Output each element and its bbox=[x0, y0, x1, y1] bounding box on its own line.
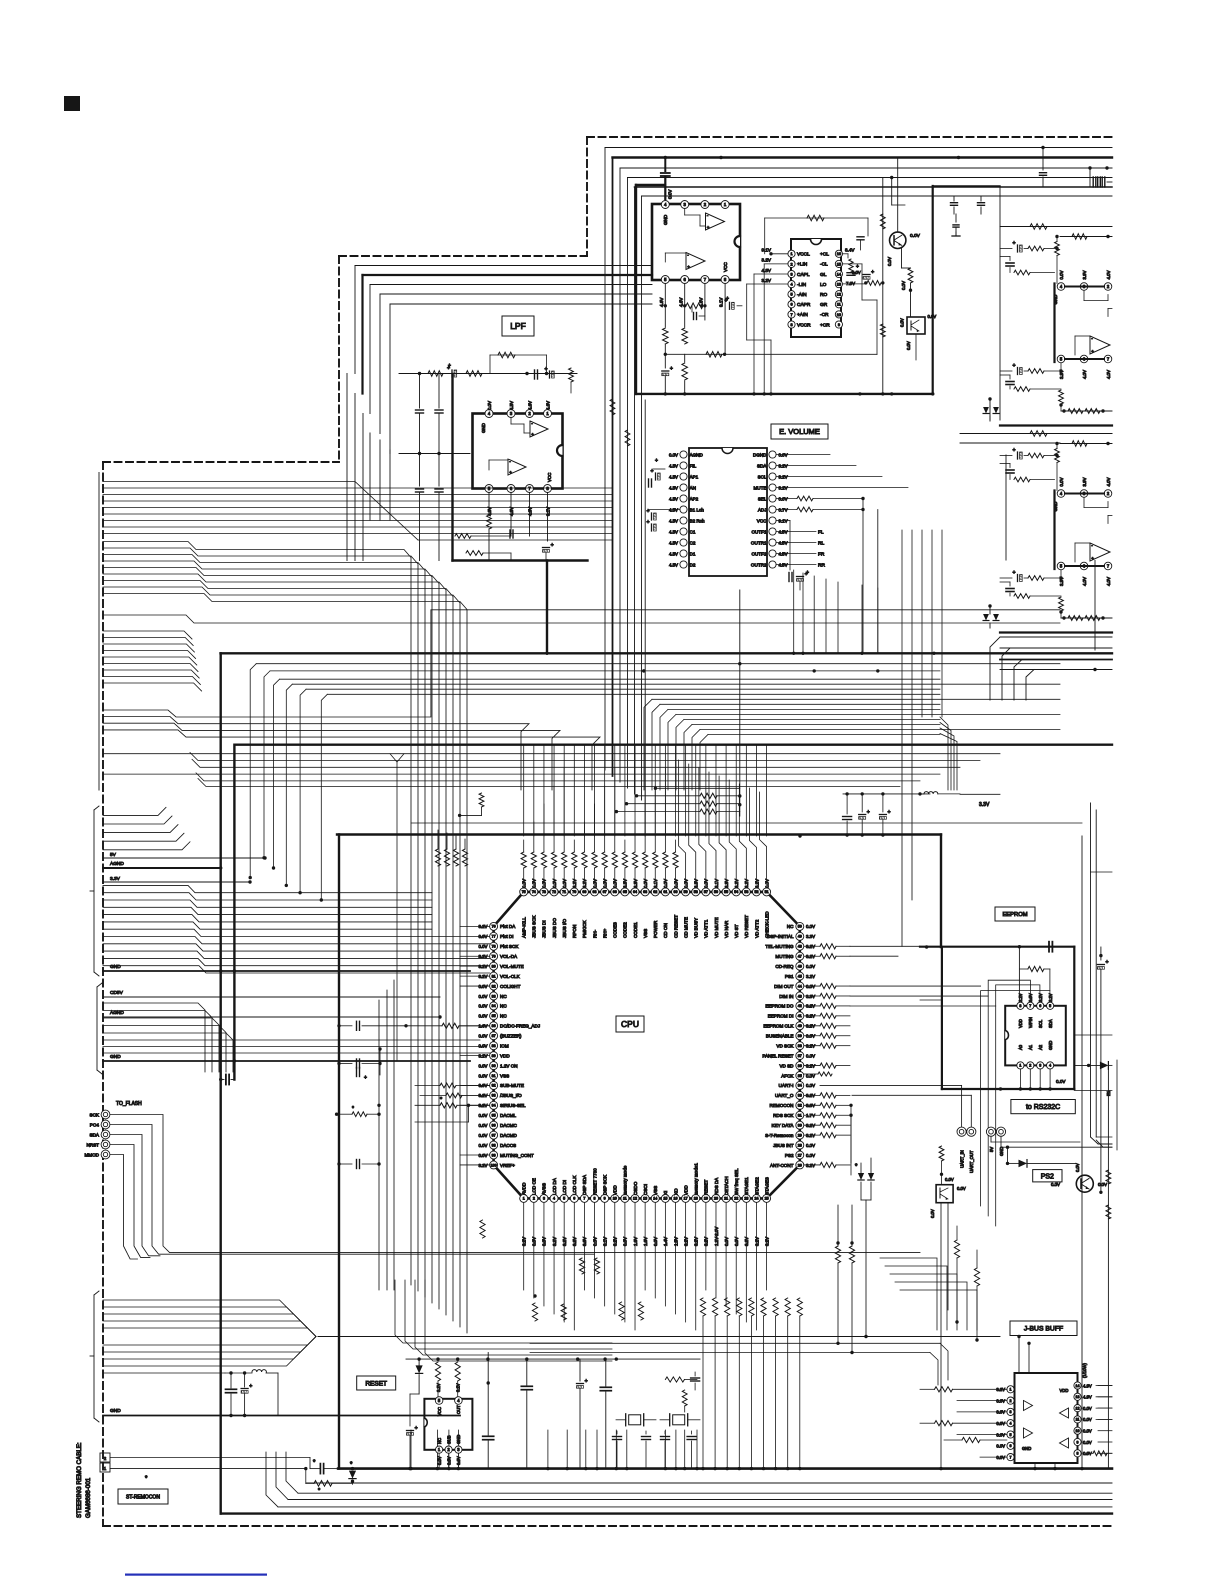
resistor R32 bbox=[804, 1104, 820, 1106]
E.VOLUME out wires bbox=[776, 531, 816, 533]
svg-text:0.0V: 0.0V bbox=[906, 341, 911, 350]
fan bracket1 upper wires bbox=[103, 807, 166, 815]
svg-text:4: 4 bbox=[1010, 1421, 1012, 1425]
fan group 7 cluster line bbox=[103, 1372, 225, 1374]
E.VOLUME left caps bbox=[653, 468, 665, 470]
ST-REMOCON label box bbox=[118, 1489, 168, 1504]
svg-text:+: + bbox=[647, 520, 650, 526]
CPU pin 42 EEPROM DO bbox=[796, 1002, 804, 1010]
svg-text:+: + bbox=[806, 570, 809, 576]
svg-text:0.0V: 0.0V bbox=[806, 1143, 815, 1148]
svg-text:LCD CE: LCD CE bbox=[532, 1178, 537, 1195]
svg-text:NRST: NRST bbox=[86, 1142, 99, 1147]
resistor U-D-R7 bbox=[1009, 593, 1011, 596]
svg-text:6: 6 bbox=[573, 1197, 575, 1201]
CPU pin 91 VSS bbox=[490, 1072, 498, 1080]
svg-text:WPIN: WPIN bbox=[1028, 1017, 1033, 1028]
svg-text:4.6V: 4.6V bbox=[487, 507, 492, 516]
svg-text:DIM OUT: DIM OUT bbox=[774, 984, 794, 989]
svg-text:CSCI: CSCI bbox=[643, 1184, 648, 1195]
svg-text:B2 Rch: B2 Rch bbox=[690, 518, 706, 523]
svg-text:SCK: SCK bbox=[90, 1112, 100, 1117]
dashed boundary staircase h1 bbox=[339, 255, 587, 257]
resistor R-RC1 bbox=[1106, 1170, 1111, 1184]
wire staircase left bbox=[355, 265, 652, 267]
svg-text:VCCR: VCCR bbox=[797, 322, 811, 328]
thick bus under U-D bbox=[1000, 631, 1112, 633]
svg-text:0.0V: 0.0V bbox=[930, 1209, 935, 1218]
svg-text:+: + bbox=[867, 809, 870, 815]
CPU pin 2 LCD CE bbox=[530, 1194, 538, 1202]
svg-text:+: + bbox=[707, 225, 710, 230]
svg-text:18: 18 bbox=[694, 1197, 698, 1201]
wire bus top bbox=[605, 147, 1112, 149]
svg-text:60: 60 bbox=[674, 890, 678, 894]
EEPROM pin 6 SCL bbox=[1037, 1002, 1044, 1009]
J-BUS IC body bbox=[1015, 1373, 1078, 1463]
CPU pin 94 SIRIUS-SEL bbox=[490, 1101, 498, 1109]
diode D-EE bbox=[1087, 1064, 1090, 1067]
svg-text:3.2V: 3.2V bbox=[762, 258, 772, 263]
wire CPU pin 63 up bbox=[644, 868, 646, 880]
E.VOLUME left pin 9 bbox=[680, 539, 687, 546]
EEPROM pin 8 VDD bbox=[1017, 1002, 1024, 1009]
resistor R-A1 bbox=[683, 304, 686, 307]
resistor U-C-R3 vertical bbox=[1056, 237, 1058, 242]
CPU pin 75 AMP-KILL bbox=[520, 888, 528, 896]
svg-text:0.0V: 0.0V bbox=[478, 944, 487, 949]
EEPROM pin 1 A0 bbox=[1017, 1062, 1024, 1069]
J-BUS buffer triangles bbox=[1024, 1401, 1033, 1411]
EEPROM pin 3 A2 bbox=[1037, 1062, 1044, 1069]
svg-text:KEY DATA: KEY DATA bbox=[772, 1123, 795, 1128]
CPU pin 66 CODE3 bbox=[611, 888, 619, 896]
E.VOLUME right pin 20 bbox=[769, 539, 776, 546]
CPU pin 52 VD ATT2 bbox=[752, 888, 760, 896]
svg-text:*: * bbox=[313, 1460, 316, 1466]
CPU pin 10 VDD bbox=[611, 1194, 619, 1202]
resistor R-JB2 bbox=[935, 1421, 953, 1426]
CPU pin 37 PANEL RESET bbox=[796, 1052, 804, 1060]
svg-text:PS1: PS1 bbox=[785, 974, 794, 979]
svg-text:0.0V: 0.0V bbox=[806, 1083, 815, 1088]
svg-text:74: 74 bbox=[532, 890, 536, 894]
thick bus under U-C bbox=[1000, 424, 1112, 426]
svg-text:9: 9 bbox=[838, 323, 840, 327]
svg-text:JBUS SCK: JBUS SCK bbox=[532, 915, 537, 938]
svg-text:50: 50 bbox=[798, 925, 802, 929]
resistor U-C-R8 vertical bbox=[1060, 363, 1062, 371]
resistor R36 bbox=[804, 1065, 820, 1067]
transistor Q1 emitter wire bbox=[901, 247, 903, 268]
svg-text:4.5V: 4.5V bbox=[669, 463, 678, 468]
svg-text:0.0V: 0.0V bbox=[487, 401, 492, 410]
fan group 5 wires bbox=[103, 1003, 205, 1072]
resistor U-C-R6 bbox=[1024, 370, 1028, 372]
E.VOLUME left pin 11 bbox=[680, 561, 687, 568]
svg-text:memory mode1: memory mode1 bbox=[694, 1163, 699, 1195]
J-BUS pin 6 bbox=[1007, 1442, 1014, 1449]
svg-text:3: 3 bbox=[543, 1197, 545, 1201]
svg-text:DSP-INITIAL: DSP-INITIAL bbox=[767, 934, 794, 939]
CPU pin 57 VD ATT1 bbox=[702, 888, 710, 896]
svg-text:+CR: +CR bbox=[820, 322, 830, 328]
IC U-B pin 13 bbox=[835, 281, 842, 288]
LPF triangle 2 bbox=[508, 459, 526, 475]
dashed boundary staircase v1 bbox=[586, 137, 588, 256]
svg-text:CD ON: CD ON bbox=[663, 923, 668, 938]
svg-text:DGND: DGND bbox=[753, 452, 767, 457]
svg-text:VD SCK: VD SCK bbox=[776, 1043, 794, 1048]
svg-text:20: 20 bbox=[714, 1197, 718, 1201]
svg-text:3: 3 bbox=[1039, 1064, 1041, 1068]
CPU pin 87 (BUZZER) bbox=[490, 1032, 498, 1040]
resistor R-L3 vertical bbox=[569, 368, 574, 382]
svg-text:1: 1 bbox=[523, 1197, 525, 1201]
svg-text:UART-I: UART-I bbox=[779, 1083, 794, 1088]
EEPROM dot bbox=[999, 1087, 1002, 1090]
resistor R-A2 vertical bbox=[664, 306, 666, 327]
wires left of LPF verticals bbox=[346, 374, 348, 561]
svg-text:66: 66 bbox=[613, 890, 617, 894]
op-amp U-C body wires bbox=[1053, 284, 1055, 363]
wire CPU pin 75 up bbox=[523, 868, 525, 880]
svg-text:VOL-DA: VOL-DA bbox=[500, 954, 518, 959]
svg-text:+: + bbox=[509, 470, 512, 475]
svg-text:-LIN: -LIN bbox=[797, 282, 807, 288]
svg-text:POWER: POWER bbox=[653, 920, 658, 938]
svg-text:28: 28 bbox=[798, 1143, 802, 1147]
thick frame line T2 bbox=[221, 652, 1113, 654]
capacitor cluster top right bbox=[1089, 168, 1091, 178]
op-amp U-D pin 4 bbox=[1057, 490, 1065, 498]
CPU pin 64 CODE1 bbox=[631, 888, 639, 896]
resistor U-C-R1 bbox=[1000, 226, 1112, 228]
svg-text:19: 19 bbox=[704, 1197, 708, 1201]
EEPROM label box bbox=[995, 907, 1035, 921]
wire CPU pin 71 up bbox=[563, 868, 565, 880]
svg-text:GND: GND bbox=[1053, 295, 1058, 305]
CPU pin 24 STAGE2 bbox=[752, 1194, 760, 1202]
fan bracket 3 bbox=[93, 1295, 95, 1418]
svg-text:12: 12 bbox=[837, 293, 841, 297]
svg-text:3.9V: 3.9V bbox=[1082, 477, 1087, 486]
5V connector bbox=[986, 1127, 995, 1136]
electrolytic C-L3 bbox=[549, 371, 551, 378]
svg-text:0.0V: 0.0V bbox=[806, 1153, 815, 1158]
svg-text:14: 14 bbox=[653, 1197, 657, 1201]
op-amp U-A pin 4 bbox=[661, 201, 669, 209]
svg-text:4.5V: 4.5V bbox=[669, 474, 678, 479]
resistor R-JB5 vertical bbox=[974, 1268, 979, 1286]
svg-text:+: + bbox=[249, 1383, 252, 1389]
svg-text:4.6V: 4.6V bbox=[679, 297, 684, 307]
fan group 7 wires upper bbox=[103, 1300, 316, 1337]
capacitor C-EV1 bbox=[789, 521, 791, 571]
svg-text:EEPROM DI: EEPROM DI bbox=[768, 1014, 794, 1019]
junction dots top bus bbox=[664, 156, 667, 159]
svg-text:SCL: SCL bbox=[1038, 1019, 1043, 1028]
svg-text:0.0V: 0.0V bbox=[945, 1177, 954, 1182]
svg-text:0.0V: 0.0V bbox=[478, 1133, 487, 1138]
svg-text:84: 84 bbox=[492, 1004, 496, 1008]
svg-text:+: + bbox=[1091, 556, 1094, 561]
wire CPU pin 62 up bbox=[654, 868, 656, 880]
J-BUS pin 14 wire bbox=[1098, 1385, 1112, 1387]
svg-text:VDD: VDD bbox=[613, 1185, 618, 1195]
svg-text:29: 29 bbox=[798, 1133, 802, 1137]
svg-text:6: 6 bbox=[1039, 1004, 1041, 1008]
svg-text:5V: 5V bbox=[989, 1147, 994, 1152]
svg-text:14: 14 bbox=[1076, 1384, 1080, 1388]
svg-text:+: + bbox=[448, 363, 451, 369]
svg-text:1: 1 bbox=[1019, 1064, 1021, 1068]
svg-text:DACML: DACML bbox=[500, 1113, 517, 1118]
svg-text:40: 40 bbox=[798, 1024, 802, 1028]
thick frame line T3 bbox=[235, 744, 1112, 746]
svg-text:93: 93 bbox=[492, 1094, 496, 1098]
J-BUS pin 11 bbox=[1074, 1416, 1081, 1423]
svg-text:11: 11 bbox=[837, 303, 841, 307]
resistor U-D-R6 bbox=[1024, 577, 1028, 579]
CPU pin 90 1.2V ON bbox=[490, 1062, 498, 1070]
svg-text:VCC: VCC bbox=[437, 1407, 442, 1416]
op-amp U-A feedback wires bbox=[684, 209, 686, 215]
resistor R39 bbox=[804, 1035, 820, 1037]
UART_IN connector bbox=[957, 1127, 966, 1136]
svg-text:11: 11 bbox=[1076, 1418, 1080, 1422]
CPU pin 97 DACMD bbox=[490, 1131, 498, 1139]
IC U-B pin 1 bbox=[788, 250, 795, 257]
svg-text:PMKICK: PMKICK bbox=[582, 919, 587, 938]
thick stub left of U-A bbox=[636, 184, 665, 186]
svg-text:AP1: AP1 bbox=[690, 474, 699, 479]
svg-text:TO_FLASH: TO_FLASH bbox=[116, 1101, 142, 1107]
CPU pin 50 NC bbox=[796, 922, 804, 930]
transistor Q-PS2 bbox=[1076, 1175, 1093, 1192]
dashed boundary staircase h2 bbox=[103, 461, 339, 463]
crystal X2 bbox=[669, 1414, 671, 1426]
svg-text:COLIGHT: COLIGHT bbox=[500, 984, 521, 989]
svg-text:0.0V: 0.0V bbox=[478, 1034, 487, 1039]
CPU pin 26 ANT-CONT bbox=[796, 1161, 804, 1169]
E.VOLUME label box bbox=[771, 424, 828, 439]
J-BUS pin 10 wire bbox=[1098, 1430, 1112, 1432]
svg-text:E. VOLUME: E. VOLUME bbox=[779, 427, 820, 436]
svg-text:9: 9 bbox=[604, 1197, 606, 1201]
wire row y823 bbox=[411, 822, 1082, 824]
op-amp U-C pin 2 bbox=[1104, 283, 1112, 291]
electrolytic C-L5 bbox=[543, 547, 550, 549]
right mid horizontal wires bbox=[960, 433, 1112, 435]
capacitor C-L4 bbox=[509, 530, 511, 538]
svg-text:*: * bbox=[352, 1106, 354, 1112]
LPF below parts bbox=[488, 493, 490, 515]
svg-text:VREF+: VREF+ bbox=[500, 1163, 515, 1168]
svg-text:AVSS: AVSS bbox=[542, 1183, 547, 1195]
capacitor C-EE1 bbox=[1048, 942, 1050, 952]
wires CPU to EEPROM bbox=[850, 945, 920, 947]
CPU pin 32 dot bbox=[849, 1104, 852, 1107]
svg-text:STAGE2: STAGE2 bbox=[754, 1177, 759, 1195]
svg-text:85: 85 bbox=[492, 1014, 496, 1018]
fan group 4 wires bbox=[103, 885, 432, 892]
wire CPU pin 66 up bbox=[614, 868, 616, 880]
svg-text:86: 86 bbox=[492, 1024, 496, 1028]
svg-text:B1 Lch: B1 Lch bbox=[690, 507, 705, 512]
CPU pin 28 JBUS INT bbox=[796, 1141, 804, 1149]
CPU pin 23 STAGE1 bbox=[742, 1194, 750, 1202]
resistor R-EE1 bbox=[1028, 966, 1044, 971]
LPF input wire row y373.5 bbox=[399, 373, 577, 375]
svg-text:/JBUS_I/O: /JBUS_I/O bbox=[500, 1093, 522, 1098]
svg-text:8.4V: 8.4V bbox=[845, 248, 855, 253]
IC U-B pin 16 bbox=[835, 250, 842, 257]
wire CPU pin 64 up bbox=[634, 868, 636, 880]
EEPROM pin 4 GND bbox=[1047, 1062, 1054, 1069]
svg-text:+: + bbox=[1013, 448, 1016, 454]
RESET label box bbox=[357, 1376, 396, 1390]
svg-text:2: 2 bbox=[104, 1456, 107, 1461]
resistor R-b7 bbox=[638, 1302, 643, 1320]
electrolytic C-A3 bbox=[664, 354, 666, 368]
svg-text:VD BUSY: VD BUSY bbox=[694, 918, 699, 938]
op-amp U-A pin 1 bbox=[721, 201, 729, 209]
resistor U-D-R2 bbox=[1060, 443, 1112, 445]
CPU pin 32 REMOCON bbox=[796, 1101, 804, 1109]
EEPROM pin7 pin6 wires bbox=[988, 980, 1030, 1216]
svg-text:EEPROM CLK: EEPROM CLK bbox=[763, 1024, 794, 1029]
E.VOLUME IC body bbox=[689, 448, 767, 576]
svg-text:+: + bbox=[1013, 570, 1016, 576]
svg-text:CD MUTE: CD MUTE bbox=[683, 917, 688, 938]
svg-text:4.0V: 4.0V bbox=[1106, 577, 1111, 586]
svg-text:0.0V: 0.0V bbox=[1083, 1417, 1092, 1422]
verticals mid right bbox=[901, 530, 903, 717]
capacitor C-top3 with ground bbox=[955, 214, 957, 222]
svg-text:7: 7 bbox=[583, 1197, 585, 1201]
J-BUS verticals bbox=[1018, 1337, 1020, 1374]
svg-text:4.5V: 4.5V bbox=[669, 540, 678, 545]
svg-text:3.2V: 3.2V bbox=[436, 1383, 441, 1392]
resistor U-C-R9 row bbox=[1060, 405, 1062, 411]
J-BUS pins to bus bbox=[1034, 1463, 1036, 1469]
resistor R-L5 bbox=[455, 534, 471, 539]
svg-text:90: 90 bbox=[492, 1064, 496, 1068]
svg-text:0.0V: 0.0V bbox=[957, 1186, 966, 1191]
resistor U-C-R5 bbox=[1009, 268, 1011, 273]
svg-text:+: + bbox=[1106, 959, 1109, 965]
svg-text:RL: RL bbox=[818, 540, 824, 546]
svg-text:VD ATT2: VD ATT2 bbox=[754, 919, 759, 938]
svg-text:SW freq SEL: SW freq SEL bbox=[734, 1168, 739, 1195]
E.VOLUME left pin 3 bbox=[680, 473, 687, 480]
wire long row y717 bbox=[103, 610, 1060, 717]
LPF pin 3 bbox=[507, 410, 515, 418]
IC U-B pin 11 bbox=[835, 301, 842, 308]
electrolytic C-RST bbox=[407, 1430, 414, 1432]
svg-text:4.9V: 4.9V bbox=[1083, 1395, 1092, 1400]
crystal X1 caps bbox=[613, 1436, 622, 1438]
svg-text:4.8V: 4.8V bbox=[762, 268, 772, 273]
dashed boundary bottom bbox=[103, 1525, 1112, 1527]
svg-text:96: 96 bbox=[492, 1123, 496, 1127]
svg-text:Pict DI: Pict DI bbox=[500, 934, 514, 939]
svg-text:92: 92 bbox=[492, 1084, 496, 1088]
bus Y split bbox=[390, 754, 404, 762]
J-BUS pin 12 wire bbox=[1098, 1407, 1112, 1409]
svg-text:VD ATT1: VD ATT1 bbox=[704, 919, 709, 938]
svg-text:17: 17 bbox=[684, 1197, 688, 1201]
resistor R-RST2 bbox=[455, 1362, 460, 1381]
CPU pin 9 DSP SCK bbox=[601, 1194, 609, 1202]
svg-text:RESET 7730: RESET 7730 bbox=[592, 1168, 597, 1195]
wire row y354 bbox=[664, 344, 666, 354]
capacitor C-mid1 bbox=[521, 1385, 532, 1387]
svg-text:8: 8 bbox=[790, 323, 792, 327]
svg-text:NC: NC bbox=[437, 1438, 442, 1444]
EEPROM pin 2 A1 bbox=[1027, 1062, 1034, 1069]
svg-text:JBUS I/O: JBUS I/O bbox=[562, 918, 567, 938]
svg-text:XO: XO bbox=[673, 1188, 678, 1195]
resistor R40 bbox=[804, 1025, 820, 1027]
svg-text:+: + bbox=[364, 1075, 367, 1081]
J-BUS wires left bbox=[957, 1400, 1007, 1402]
resistor R-JB6 bbox=[1093, 1451, 1107, 1456]
CPU pin 89 VDD bbox=[490, 1052, 498, 1060]
svg-text:0.0V: 0.0V bbox=[1098, 1182, 1107, 1187]
svg-text:UART_OUT: UART_OUT bbox=[969, 1150, 974, 1173]
svg-text:2: 2 bbox=[790, 262, 792, 266]
CPU pin 5 LCD DI bbox=[560, 1194, 568, 1202]
resistor R41 bbox=[804, 1015, 820, 1017]
resistor R26 bbox=[804, 1164, 820, 1166]
svg-text:81: 81 bbox=[492, 974, 496, 978]
resistor R-b2 bbox=[532, 1303, 537, 1321]
svg-text:0.0V: 0.0V bbox=[806, 964, 815, 969]
CPU pin 98 DACCS bbox=[490, 1141, 498, 1149]
svg-text:9: 9 bbox=[1077, 1440, 1079, 1444]
E.VOLUME SEL ADJ verticals bbox=[862, 499, 864, 654]
wire 3.3V row bbox=[843, 793, 930, 795]
svg-text:VD MUTE: VD MUTE bbox=[714, 917, 719, 938]
svg-text:JBUS DI: JBUS DI bbox=[542, 920, 547, 938]
svg-text:DSP SCK: DSP SCK bbox=[602, 1174, 607, 1195]
photocoupler PC2 bbox=[936, 1185, 953, 1203]
svg-text:4.6V: 4.6V bbox=[528, 507, 533, 516]
svg-text:GND: GND bbox=[1048, 1041, 1053, 1050]
svg-text:IOM: IOM bbox=[500, 1043, 509, 1048]
LPF feedback resistor R-L4 bbox=[490, 354, 547, 356]
bottom wire rows bbox=[306, 1482, 1112, 1484]
svg-text:XI: XI bbox=[663, 1191, 668, 1195]
diode D-PS2 bbox=[1006, 1162, 1009, 1165]
IC U-B DIP16 body bbox=[791, 239, 841, 337]
op-amp U-A pin 2 bbox=[701, 201, 709, 209]
fan group 2 wires bbox=[103, 542, 411, 1286]
CPU pin 67 RH+ bbox=[601, 888, 609, 896]
inductor L1 bbox=[918, 792, 921, 795]
IC U-B pin 15 bbox=[835, 260, 842, 267]
svg-text:15: 15 bbox=[663, 1197, 667, 1201]
svg-text:45: 45 bbox=[798, 974, 802, 978]
svg-text:+: + bbox=[871, 269, 874, 275]
GND connector wire bbox=[1000, 1136, 1002, 1147]
GND connector bbox=[996, 1127, 1005, 1136]
electrolytic U-C-C1 bbox=[1017, 245, 1019, 252]
svg-text:+: + bbox=[687, 265, 690, 270]
svg-text:22: 22 bbox=[734, 1197, 738, 1201]
